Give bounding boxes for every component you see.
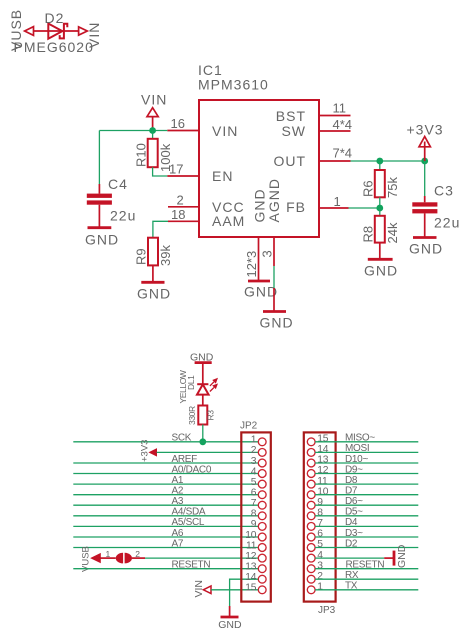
svg-text:1: 1 (334, 194, 341, 209)
pin 7*4 stub OUT (319, 160, 351, 162)
svg-text:RESETN: RESETN (172, 560, 211, 571)
junction SCK (199, 438, 206, 445)
pin 1 stub FB (319, 207, 349, 209)
wire LED to R3 (202, 395, 204, 406)
capacitor C3 lead top (424, 196, 426, 202)
capacitor C3 lead bottom (424, 213, 426, 237)
svg-text:SW: SW (281, 123, 306, 139)
wire AAM net (153, 221, 168, 237)
wire D4 row9 (315, 525, 418, 527)
capacitor C4 lead top (98, 184, 100, 194)
ground row12 lead (384, 557, 394, 559)
svg-text:BST: BST (276, 108, 306, 124)
wire TX row15 (315, 589, 418, 591)
svg-text:1: 1 (251, 435, 257, 446)
wire GND to LED (202, 363, 204, 385)
wire R6 bottom lead (379, 197, 381, 208)
wire VIN rail (99, 130, 167, 132)
wire R3 to SCK (202, 425, 204, 442)
pin 17 stub (167, 175, 199, 177)
svg-text:JP2: JP2 (240, 420, 258, 431)
resistor R6 (375, 170, 385, 197)
JP3 pads (307, 438, 315, 594)
wire row12 (145, 557, 258, 559)
svg-text:1: 1 (317, 582, 323, 593)
wire AGND net (273, 266, 275, 288)
wire A1 row5 (73, 483, 258, 485)
svg-text:MPM3610: MPM3610 (198, 77, 269, 93)
solder jumper half 2 (125, 553, 132, 564)
junction FB/R8 (376, 205, 383, 212)
pin 18 stub AAM (168, 220, 199, 222)
ground row14 (221, 616, 239, 619)
svg-text:OUT: OUT (273, 153, 306, 169)
svg-text:SCK: SCK (172, 433, 192, 444)
wire FB net (349, 207, 380, 209)
op-amp IC1 body (199, 100, 319, 237)
resistor R9 (148, 238, 158, 266)
svg-text:VIN: VIN (212, 123, 238, 139)
resistor R8 (375, 216, 385, 243)
svg-text:1: 1 (106, 549, 111, 559)
svg-text:TX: TX (345, 581, 358, 592)
pin 11 stub BST (319, 115, 351, 117)
ground C4 (88, 226, 112, 229)
svg-text:D9~: D9~ (345, 464, 363, 475)
svg-text:GND: GND (85, 232, 119, 248)
power arrow VUSB row12 (91, 554, 100, 563)
wire row2 (157, 451, 259, 453)
wire +3V3 drop (424, 142, 426, 162)
svg-text:R10: R10 (134, 143, 149, 167)
svg-text:RX: RX (345, 570, 359, 581)
svg-text:16: 16 (171, 116, 185, 131)
wire D2 row11 (315, 547, 418, 549)
svg-text:R6: R6 (361, 180, 376, 197)
svg-text:A7: A7 (172, 538, 184, 549)
svg-text:MISO~: MISO~ (345, 433, 375, 444)
wire D7 row6 (315, 494, 418, 496)
wire jumper left (100, 557, 115, 559)
pin 3 stub AGND (273, 237, 275, 266)
wire RESETN row13 (73, 568, 258, 570)
svg-text:11: 11 (317, 476, 328, 487)
svg-text:75k: 75k (385, 177, 400, 198)
svg-text:C4: C4 (108, 176, 128, 192)
svg-text:2: 2 (317, 571, 323, 582)
svg-text:GND: GND (137, 286, 171, 302)
wire D3 row10 (315, 536, 418, 538)
svg-text:11: 11 (333, 101, 347, 116)
wire D9 row4 (315, 473, 418, 475)
capacitor C4 lead bottom (98, 205, 100, 228)
svg-text:A5/SCL: A5/SCL (172, 517, 205, 528)
svg-text:D3~: D3~ (345, 528, 363, 539)
svg-text:12: 12 (317, 465, 329, 476)
svg-text:7*4: 7*4 (333, 146, 353, 161)
JP2 pin numbers (245, 435, 257, 594)
junction OUT/C3 (421, 158, 428, 165)
wire D8 row5 (315, 483, 418, 485)
svg-text:9: 9 (317, 497, 323, 508)
svg-text:4: 4 (251, 466, 257, 477)
JP2 pads (258, 438, 266, 594)
svg-text:330R: 330R (187, 406, 197, 425)
svg-text:+3V3: +3V3 (139, 440, 150, 462)
svg-text:6: 6 (251, 488, 257, 499)
wire AREF row3 (73, 462, 258, 464)
resistor R10 (148, 139, 158, 167)
svg-text:AGND: AGND (266, 178, 282, 222)
svg-text:D2: D2 (345, 538, 358, 549)
pin 2 stub VCC (168, 206, 199, 208)
svg-text:AAM: AAM (212, 213, 245, 229)
ground IC GND pin (248, 280, 270, 283)
svg-text:GND: GND (409, 241, 443, 257)
power arrow VIN (diode output) (79, 27, 88, 35)
wire R10 top lead (152, 131, 154, 139)
resistor R8 lead bottom (379, 243, 381, 260)
svg-text:5: 5 (251, 477, 257, 488)
solder jumper half 1 (116, 553, 123, 564)
power arrow VUSB (25, 27, 34, 36)
svg-text:13: 13 (245, 562, 257, 573)
svg-text:A3: A3 (172, 496, 184, 507)
svg-text:GND: GND (218, 619, 242, 631)
wire RX row14 (315, 578, 418, 580)
connector JP2 body (241, 432, 270, 601)
wire R10 to EN (153, 167, 168, 176)
connector JP3 body (304, 432, 336, 601)
ground AGND (263, 310, 286, 313)
svg-text:YELLOW: YELLOW (178, 370, 188, 403)
ground AGND lead (273, 288, 275, 312)
svg-text:8: 8 (317, 508, 323, 519)
svg-text:15: 15 (317, 434, 329, 445)
wire MOSI row2 (315, 451, 418, 453)
svg-text:GND: GND (244, 284, 278, 300)
pin 4*4 stub SW (319, 130, 351, 132)
svg-text:12*3: 12*3 (244, 251, 259, 278)
svg-text:R8: R8 (361, 226, 376, 243)
svg-text:12: 12 (245, 551, 257, 562)
svg-text:D4: D4 (345, 517, 358, 528)
ground R9 (141, 281, 164, 284)
svg-text:100k: 100k (158, 143, 173, 172)
svg-text:3: 3 (260, 250, 275, 257)
wire D10 row3 (315, 462, 418, 464)
wire jumper right (132, 557, 145, 559)
ground C3 (413, 236, 437, 239)
svg-text:24k: 24k (385, 222, 400, 243)
svg-text:A6: A6 (172, 528, 184, 539)
wire C3 branch (424, 161, 426, 196)
svg-text:VIN: VIN (141, 92, 167, 108)
wire A2 row6 (73, 494, 258, 496)
wire RESETN row13 right (315, 568, 418, 570)
svg-text:GND: GND (396, 544, 408, 568)
svg-text:11: 11 (246, 540, 257, 551)
wire A7 row11 (73, 547, 258, 549)
svg-text:D10~: D10~ (345, 454, 368, 465)
svg-text:A4/SDA: A4/SDA (172, 507, 206, 518)
svg-text:8: 8 (251, 509, 257, 520)
svg-text:MOSI: MOSI (345, 443, 369, 454)
svg-text:4*4: 4*4 (333, 117, 353, 132)
svg-text:7: 7 (317, 518, 323, 529)
svg-text:VIN: VIN (86, 22, 102, 48)
svg-text:RESETN: RESETN (346, 560, 385, 571)
wire C4 branch (98, 131, 100, 185)
LED DL1 (197, 379, 217, 395)
svg-text:9: 9 (251, 519, 257, 530)
svg-text:+3V3: +3V3 (407, 122, 444, 138)
wire A6 row10 (73, 536, 258, 538)
svg-text:R3: R3 (206, 410, 216, 421)
wire row12 right (315, 557, 384, 559)
power arrow +3V3 row2 (149, 449, 156, 456)
power symbol VIN arrow (147, 108, 158, 117)
svg-text:D5~: D5~ (345, 507, 363, 518)
resistor R9 lead bottom (152, 265, 154, 282)
wire A5/SCL row9 (73, 525, 258, 527)
svg-text:GND: GND (260, 315, 294, 331)
svg-text:C3: C3 (434, 183, 454, 199)
pin 12*3 stub GND (258, 237, 260, 281)
wire OUT net (351, 160, 425, 162)
svg-text:GND: GND (364, 263, 398, 279)
svg-text:D8: D8 (345, 475, 358, 486)
pin 16 stub (167, 130, 199, 132)
svg-text:AREF: AREF (172, 454, 198, 465)
svg-text:3: 3 (251, 456, 257, 467)
svg-text:15: 15 (245, 583, 257, 594)
svg-text:4: 4 (317, 550, 323, 561)
resistor R3 (198, 406, 207, 425)
svg-text:JP3: JP3 (318, 605, 336, 616)
JP3 pin numbers (317, 434, 329, 593)
svg-text:10: 10 (317, 486, 329, 497)
svg-text:VIN: VIN (193, 580, 205, 598)
svg-text:A2: A2 (172, 486, 184, 497)
power arrow VIN row15 (203, 586, 211, 594)
wire D5 row8 (315, 515, 418, 517)
diode D2 (48, 24, 67, 39)
wire VIN drop (152, 117, 154, 131)
svg-text:10: 10 (245, 530, 257, 541)
svg-text:22u: 22u (110, 208, 136, 224)
power symbol +3V3 arrow (419, 137, 430, 147)
svg-text:D7: D7 (345, 486, 358, 497)
svg-text:3: 3 (317, 560, 323, 571)
ground row12 (393, 551, 396, 566)
svg-text:R9: R9 (134, 248, 149, 265)
svg-text:14: 14 (317, 444, 329, 455)
svg-text:A1: A1 (172, 475, 184, 486)
wire SCK row1 (73, 441, 258, 443)
wire R8 top lead (379, 208, 381, 216)
junction VIN (149, 127, 156, 134)
svg-text:PMEG6020: PMEG6020 (14, 39, 94, 55)
capacitor C4 plates (87, 194, 112, 205)
svg-text:13: 13 (317, 455, 329, 466)
svg-text:EN: EN (212, 168, 233, 184)
wire (34, 30, 79, 32)
svg-text:22u: 22u (434, 215, 460, 231)
wire A0/DAC0 row4 (73, 473, 258, 475)
svg-text:2: 2 (177, 192, 184, 207)
svg-text:18: 18 (171, 207, 185, 222)
svg-text:2: 2 (251, 445, 257, 456)
svg-text:FB: FB (286, 199, 306, 215)
wire row15 (211, 589, 258, 591)
svg-text:39k: 39k (158, 245, 173, 266)
capacitor C3 plates (412, 202, 437, 213)
svg-text:A0/DAC0: A0/DAC0 (172, 464, 212, 475)
svg-text:D6~: D6~ (345, 496, 363, 507)
svg-text:D2: D2 (45, 10, 65, 26)
wire D6 row7 (315, 504, 418, 506)
wire A3 row7 (73, 504, 258, 506)
svg-text:5: 5 (317, 539, 323, 550)
ground R8 (368, 258, 393, 261)
wire R6 top lead (379, 161, 381, 170)
svg-text:6: 6 (317, 529, 323, 540)
ground DL1 (195, 361, 212, 364)
svg-text:14: 14 (245, 572, 257, 583)
wire A4/SDA row8 (73, 515, 258, 517)
svg-text:7: 7 (251, 498, 257, 509)
wire MISO row1 (315, 441, 418, 443)
wire row14 to ground (230, 579, 259, 606)
junction OUT/R6 (376, 158, 383, 165)
